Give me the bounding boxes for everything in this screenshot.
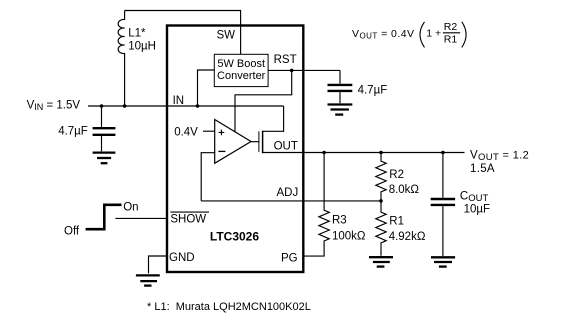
5W boost converter box: [214, 54, 268, 86]
svg-text:OUT: OUT: [274, 141, 298, 153]
svg-text:PG: PG: [281, 252, 298, 264]
svg-text:10µF: 10µF: [464, 203, 490, 215]
wire output rail: [263, 152, 465, 154]
svg-text:4.92kΩ: 4.92kΩ: [389, 231, 426, 243]
svg-text:On: On: [123, 202, 138, 214]
svg-text:VIN = 1.5V: VIN = 1.5V: [27, 100, 81, 113]
formula VOUT = 0.4V (1 + R2/R1): [352, 21, 466, 47]
wire RST internal to op-amp: [235, 70, 292, 132]
svg-text:R3: R3: [332, 215, 347, 227]
resistor R2 8.0k: [376, 153, 386, 201]
svg-text:8.0kΩ: 8.0kΩ: [389, 184, 420, 196]
svg-text:0.4V: 0.4V: [174, 127, 198, 139]
wire mosfet drain from IN rail: [263, 106, 284, 131]
svg-text:1.5A: 1.5A: [470, 163, 495, 175]
svg-text:IN: IN: [173, 95, 185, 107]
capacitor C2 4.7uF RST: [328, 70, 353, 103]
capacitor C1 4.7uF input: [93, 106, 116, 151]
svg-text:LTC3026: LTC3026: [210, 230, 259, 244]
capacitor COUT 10uF: [431, 153, 455, 257]
wire boost input from IN rail: [198, 70, 215, 106]
wire op-amp minus to ADJ line: [201, 153, 215, 201]
switch waveform on/off: [86, 205, 122, 229]
inductor L1: [118, 11, 124, 107]
ground input cap: [93, 153, 116, 164]
ground RST cap: [328, 105, 353, 115]
wire VIN rail: [88, 105, 284, 107]
svg-text:1 +: 1 +: [426, 28, 441, 40]
svg-text:4.7µF: 4.7µF: [58, 126, 88, 138]
svg-text:Off: Off: [64, 226, 80, 238]
svg-text:R2: R2: [389, 169, 404, 181]
wire ADJ line: [201, 200, 381, 202]
svg-text:10µH: 10µH: [128, 41, 156, 53]
svg-text:GND: GND: [169, 252, 195, 264]
svg-text:SHOW: SHOW: [170, 214, 206, 226]
ground GND pin: [136, 275, 160, 285]
IC LTC3026 box: [167, 26, 303, 273]
svg-text:COUT: COUT: [460, 191, 489, 205]
wire SHDN input: [115, 217, 166, 219]
wire PG to R3: [304, 243, 324, 257]
wire top rail L1 to SW: [125, 11, 241, 55]
svg-text:4.7µF: 4.7µF: [358, 85, 388, 97]
svg-text:* L1: Murata LQH2MCN100K02L: * L1: Murata LQH2MCN100K02L: [147, 301, 311, 313]
svg-text:L1*: L1*: [128, 28, 146, 40]
svg-text:VOUT = 1.2: VOUT = 1.2: [470, 150, 529, 164]
svg-text:R2: R2: [444, 21, 458, 33]
ground COUT: [431, 257, 455, 266]
wire RST to cap: [268, 69, 340, 71]
resistor R1 4.92k: [376, 201, 386, 256]
svg-text:100kΩ: 100kΩ: [332, 231, 366, 243]
resistor R3 100k: [319, 153, 329, 243]
svg-text:Converter: Converter: [217, 70, 266, 82]
svg-text:R1: R1: [444, 34, 458, 46]
ground R1: [369, 257, 393, 266]
transistor pass FET gate bar: [258, 131, 260, 152]
svg-text:5W Boost: 5W Boost: [217, 58, 265, 70]
svg-text:SW: SW: [217, 30, 236, 42]
svg-text:RST: RST: [274, 54, 297, 66]
wire op-amp output to gate: [251, 141, 259, 143]
transistor pass FET channel: [262, 131, 264, 154]
wire 0.4V to op-amp plus: [203, 130, 215, 132]
wire GND pin: [149, 256, 167, 273]
op-amp U1: [215, 120, 251, 164]
svg-text:ADJ: ADJ: [277, 187, 299, 199]
svg-text:R1: R1: [389, 215, 404, 227]
